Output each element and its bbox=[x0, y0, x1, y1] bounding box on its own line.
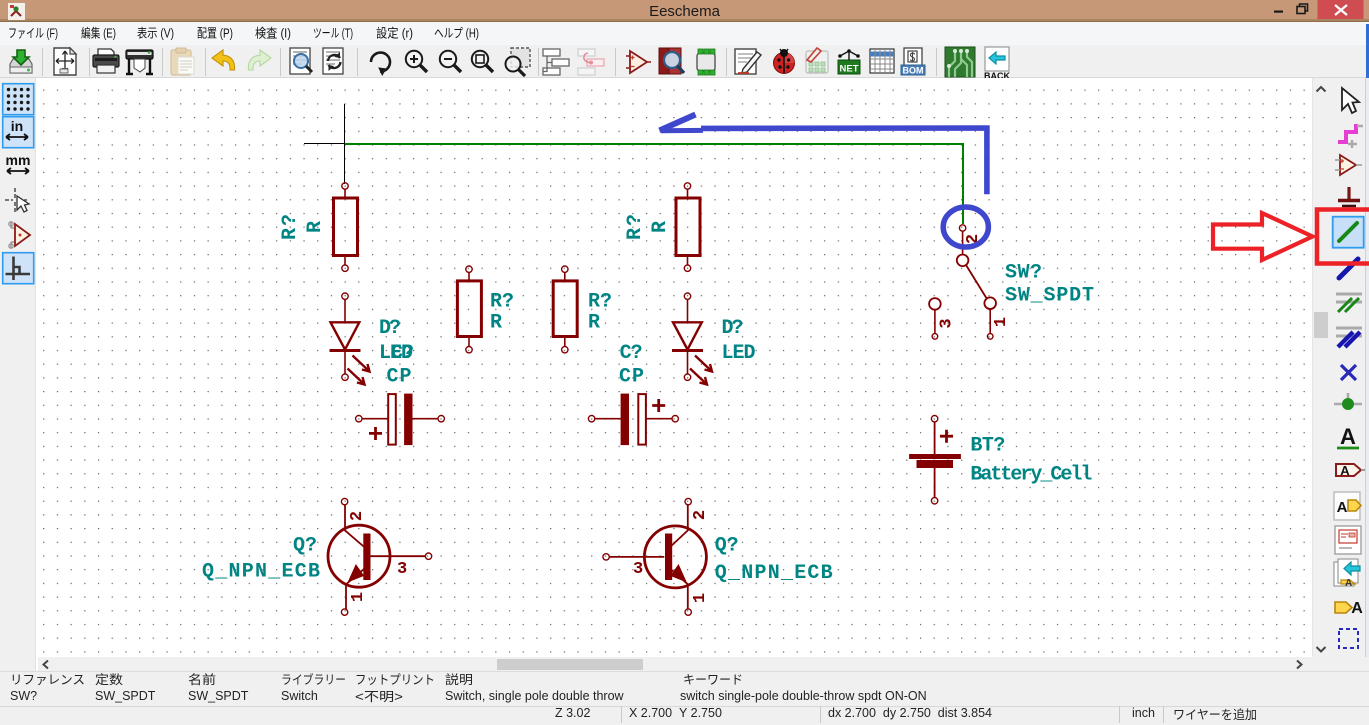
select cursor tool bbox=[1342, 88, 1359, 113]
redo bbox=[248, 50, 271, 70]
bus tool bbox=[1339, 259, 1358, 278]
wire W1 bbox=[345, 144, 963, 224]
wire-to-bus entry tool bbox=[1336, 294, 1362, 312]
annotate bbox=[806, 48, 828, 73]
leave sheet bbox=[578, 49, 604, 75]
resistor R1 bbox=[334, 183, 358, 272]
switch SW1 bbox=[929, 225, 996, 339]
footprints chip bbox=[697, 49, 715, 75]
resistor R3 bbox=[457, 266, 481, 353]
place symbol (op-amp) bbox=[626, 51, 651, 73]
menu bar bbox=[0, 22, 1369, 46]
zoom selection bbox=[506, 48, 531, 76]
capacitor C2 bbox=[588, 394, 678, 445]
right toolbar bbox=[1330, 78, 1369, 657]
hierarchy navigator bbox=[543, 49, 569, 75]
bus-to-bus entry tool bbox=[1336, 328, 1362, 347]
place power port tool bbox=[1338, 187, 1360, 206]
bottom bar bbox=[0, 706, 1369, 725]
left toolbar bbox=[0, 78, 36, 671]
BOM bbox=[901, 48, 925, 76]
hierarchy highlight tool bbox=[1338, 124, 1363, 148]
red annotation arrow bbox=[1213, 213, 1313, 260]
zoom in bbox=[406, 50, 427, 71]
no connect tool bbox=[1341, 365, 1356, 380]
undo bbox=[212, 50, 235, 70]
find bbox=[290, 48, 312, 74]
hidden pins toggle bbox=[9, 222, 30, 248]
paste sheet tool bbox=[1334, 559, 1360, 589]
netlist NET bbox=[838, 49, 860, 74]
main toolbar bbox=[0, 45, 1369, 78]
units mm bbox=[6, 152, 31, 174]
transistor Q2 bbox=[603, 498, 707, 615]
cursor shape toggle bbox=[5, 188, 29, 212]
hierarchical pin tool bbox=[1335, 600, 1363, 617]
right edge strips bbox=[1366, 24, 1369, 78]
LED D2 bbox=[672, 293, 712, 385]
orthogonal wires (selected) bbox=[3, 253, 34, 284]
status bar bbox=[0, 671, 1369, 707]
net label tool bbox=[1337, 424, 1359, 449]
capacitor C1 bbox=[356, 394, 445, 445]
blue annotation arrow bbox=[660, 115, 987, 195]
wire tool (selected) bbox=[1333, 217, 1364, 248]
app icon bbox=[8, 3, 25, 20]
resistor R2 bbox=[676, 183, 700, 272]
grid toggle (selected) bbox=[3, 84, 34, 115]
edit sheet bbox=[735, 49, 761, 74]
resistor R4 bbox=[553, 266, 577, 353]
fields table bbox=[870, 49, 894, 73]
import sheet pin tool bbox=[1335, 526, 1361, 554]
units inch (selected) bbox=[3, 117, 34, 148]
LED D1 bbox=[330, 293, 370, 385]
window title bar bbox=[0, 0, 1369, 19]
BACK bbox=[984, 47, 1010, 81]
place symbol tool bbox=[1335, 155, 1362, 175]
page settings bbox=[54, 48, 76, 75]
CANVAS bbox=[36, 78, 1312, 657]
ERC ladybug bbox=[774, 49, 795, 74]
paste (disabled) bbox=[171, 48, 194, 75]
window buttons bbox=[1260, 0, 1369, 22]
scrollbars bbox=[1312, 78, 1330, 657]
global label tool bbox=[1336, 463, 1365, 478]
print bbox=[93, 49, 119, 73]
junction tool bbox=[1334, 393, 1362, 410]
open PCB bbox=[945, 47, 975, 77]
transistor Q1 bbox=[328, 498, 432, 615]
hierarchical label tool bbox=[1334, 492, 1361, 520]
blue annotation circle bbox=[943, 207, 988, 247]
find replace bbox=[323, 48, 343, 74]
red highlight box around wire tool bbox=[1317, 210, 1369, 264]
zoom fit bbox=[472, 50, 493, 71]
plot bbox=[126, 50, 153, 74]
zoom out bbox=[440, 50, 461, 71]
library browser bbox=[659, 48, 684, 74]
selection box tool bbox=[1339, 629, 1358, 648]
battery BT1 bbox=[910, 416, 961, 504]
redraw view bbox=[371, 52, 390, 75]
save bbox=[10, 50, 32, 73]
crosshair cursor bbox=[304, 104, 386, 184]
